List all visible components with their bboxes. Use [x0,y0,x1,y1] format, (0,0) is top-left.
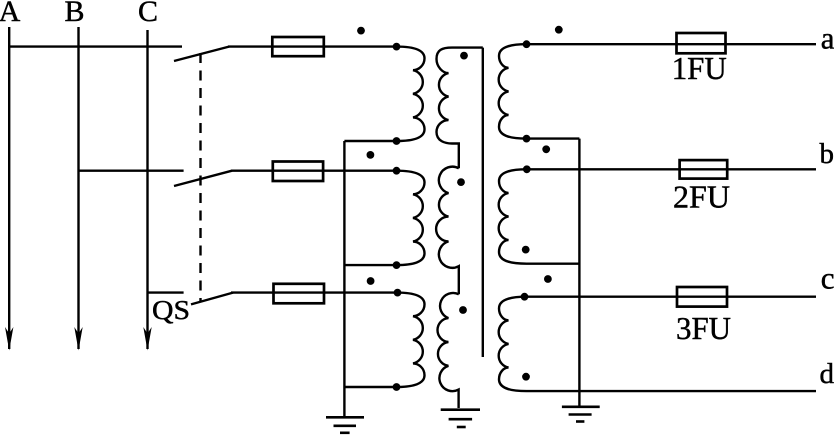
polarity dot: w2 [542,145,550,153]
svg-text:1FU: 1FU [672,51,727,86]
svg-text:d: d [820,358,834,390]
wire: feeder phase A [9,45,182,47]
net b: output wire [527,168,817,170]
switch QS pole 2 blade [174,171,232,186]
primary winding W3 (phase C) [397,293,425,387]
arrow: busbar A [5,327,13,351]
wire: pole2 to winding W2 [231,169,397,171]
auxiliary winding W4 section 3 [437,293,458,408]
junction dot: W3 top [394,289,402,297]
wire: pole1 to winding W1 [228,45,397,47]
fuse 1FU [677,33,726,53]
terminal dot: w2 bottom [522,246,530,254]
wire: W1 end to neutral bus [344,140,396,142]
polarity dot: W4 section 1 [460,52,468,60]
wire: W2 end to neutral bus [344,264,396,266]
wire: secondary neutral bus [578,139,580,406]
terminal dot: w3 bottom [522,373,530,381]
junction dot: W3 bottom [393,383,401,391]
wire: pole3 to winding W3 [231,291,397,293]
svg-text:QS: QS [152,295,190,325]
secondary winding w1 (phase a) [499,44,527,138]
fuse FU2 (primary B) [273,162,323,182]
wire: feeder phase B [79,169,184,171]
polarity dot: w3 [544,275,552,283]
svg-text:A: A [0,0,21,28]
polarity dot: W4 section 3 [459,306,467,314]
junction dot: w2 top [523,165,531,173]
junction dot: w1 bottom [523,135,531,143]
auxiliary winding W4 section 1 [437,48,483,169]
junction dot: W2 bottom [393,261,401,269]
svg-text:a: a [821,21,834,56]
svg-text:3FU: 3FU [676,311,731,346]
wire: busbar B vertical [77,27,79,349]
auxiliary winding W4 section 2 [436,167,459,295]
wire: w1 end to secondary neutral [527,137,580,139]
arrow: busbar B [74,327,82,351]
polarity dot: w1 [555,26,563,34]
ground (auxiliary winding) [441,410,480,427]
svg-text:C: C [138,0,158,28]
secondary winding w3 (phase c) [499,297,527,391]
wire: feeder phase C [148,291,184,293]
junction dot: W1 top [393,43,401,51]
junction dot: w1 top [523,40,531,48]
svg-text:B: B [64,0,84,28]
junction dot: W2 top [393,167,401,175]
polarity dot: W3 [367,277,375,285]
svg-text:b: b [820,138,834,170]
primary winding W1 (phase A) [397,47,425,141]
ground (primary neutral) [326,417,364,433]
fuse 2FU [680,160,728,179]
junction dot: w3 top [521,293,529,301]
junction dot: W1 bottom [393,137,401,145]
net a: output wire [527,43,817,45]
polarity dot: W4 section 2 [457,178,465,186]
net c: output wire [527,296,817,298]
wire: primary neutral bus [343,141,345,416]
fuse FU1 (primary A) [272,37,324,56]
primary winding W2 (phase B) [397,171,425,265]
svg-text:c: c [821,261,834,296]
arrow: busbar C [143,327,151,351]
net d: output wire [527,390,817,392]
wire: busbar A vertical [8,27,10,349]
wire: w2 end to secondary neutral [527,263,580,265]
wire: W3 end to neutral bus [344,386,396,388]
polarity dot: W2 [367,151,375,159]
polarity dot: W1 [357,27,365,35]
svg-text:2FU: 2FU [673,180,730,215]
secondary winding w2 (phase b) [499,169,527,263]
ground (secondary neutral) [562,407,600,422]
fuse 3FU [677,287,727,307]
switch QS pole 3 blade [191,293,233,305]
wire: open-delta lead (hanging) [482,48,484,357]
wire: busbar C vertical [146,30,148,349]
switch QS pole 1 blade [174,47,229,61]
switch QS linkage (dashed) [199,53,201,302]
fuse FU3 (primary C) [274,284,325,304]
